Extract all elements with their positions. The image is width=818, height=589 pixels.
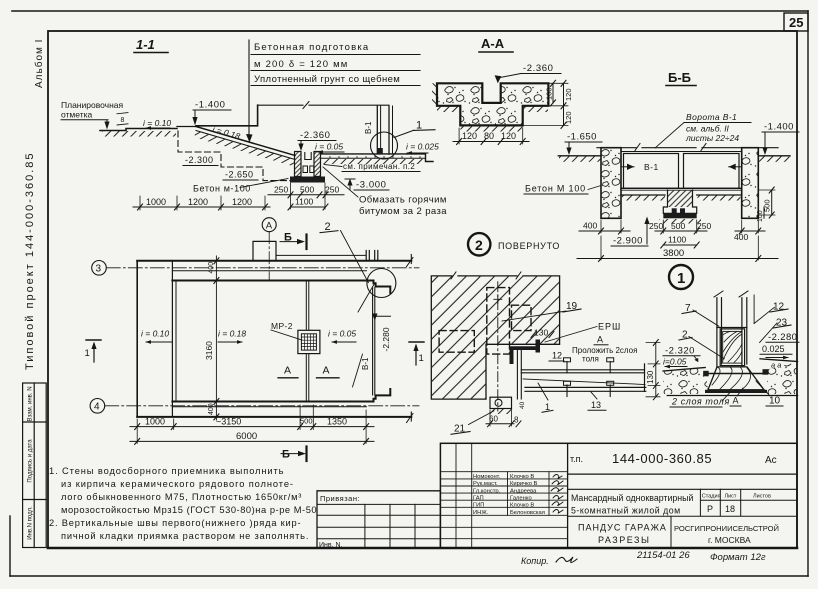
svg-text:Ворота В-1: Ворота В-1 [686, 112, 737, 122]
svg-text:Мансардный одноквартирный: Мансардный одноквартирный [571, 493, 693, 503]
svg-text:60: 60 [489, 415, 498, 424]
svg-text:ИНЖ.: ИНЖ. [473, 510, 489, 516]
svg-text:i = 0.05: i = 0.05 [328, 329, 356, 339]
svg-text:Рук.маст.: Рук.маст. [473, 481, 498, 487]
vertical dim line 3160/400 [215, 256, 217, 420]
svg-text:Гл.констр.: Гл.констр. [473, 488, 501, 494]
svg-text:-2.360: -2.360 [523, 63, 554, 74]
ground line left [558, 155, 601, 157]
svg-text:1350: 1350 [327, 417, 347, 427]
svg-text:120: 120 [564, 111, 573, 124]
svg-text:10: 10 [769, 396, 781, 407]
svg-text:Киричко В: Киричко В [510, 481, 538, 487]
outlet stub on top wall [253, 241, 276, 260]
DET2 [431, 233, 660, 434]
right end of leaf [644, 364, 646, 391]
svg-text:400: 400 [583, 221, 597, 231]
outer border bottom [10, 575, 808, 577]
svg-text:1: 1 [419, 353, 424, 364]
anchor axis dash-dot [497, 282, 499, 411]
svg-text:Галенко: Галенко [510, 495, 532, 501]
channel section concrete body [437, 83, 548, 125]
bolt 2 top [609, 362, 611, 373]
section mark 1 left [86, 339, 101, 341]
bolt 1 top [566, 362, 568, 373]
center pedestal [663, 190, 696, 213]
svg-text:1: 1 [677, 270, 685, 287]
bottom gate jamb [374, 389, 391, 402]
svg-text:Лист: Лист [725, 493, 737, 499]
plan bottom wall [137, 416, 411, 418]
signature columns [456, 443, 549, 548]
svg-text:Стадия: Стадия [702, 493, 721, 499]
leader line from above [753, 295, 755, 324]
svg-text:Р: Р [707, 504, 713, 514]
svg-text:1. Стены водосборного приемн: 1. Стены водосборного приемника выполнит… [49, 466, 284, 476]
svg-text:~3150: ~3150 [216, 417, 241, 427]
stage/sheet header [568, 489, 797, 516]
DET1 [663, 291, 799, 407]
svg-text:Инв.N подл.: Инв.N подл. [28, 506, 34, 540]
svg-text:40: 40 [519, 401, 526, 409]
svg-text:РОСГИПРОНИИСЕЛЬСТРОЙ: РОСГИПРОНИИСЕЛЬСТРОЙ [674, 524, 779, 533]
stamp vertical main divider [567, 443, 569, 548]
right dim 100 [552, 83, 554, 103]
ground concrete right [760, 359, 798, 362]
header row line [568, 488, 797, 490]
svg-text:из кирпича керамического ря: из кирпича керамического рядового полнот… [61, 479, 294, 489]
gate post left pair [717, 298, 722, 367]
svg-text:А-А: А-А [481, 36, 505, 51]
svg-text:8: 8 [121, 117, 125, 124]
svg-text:Бетон М 100: Бетон М 100 [525, 184, 586, 194]
svg-text:3: 3 [96, 264, 102, 275]
svg-text:РАЗРЕЗЫ: РАЗРЕЗЫ [598, 535, 650, 545]
drain grate МР-2 [298, 330, 320, 353]
sill panel top [717, 327, 747, 329]
svg-text:4: 4 [94, 402, 100, 413]
svg-text:130: 130 [646, 370, 655, 384]
grid axis 4 [105, 405, 419, 407]
svg-text:МР-2: МР-2 [271, 321, 293, 331]
plan left edge [136, 261, 138, 417]
ground hatch left [102, 131, 176, 137]
svg-text:250: 250 [274, 185, 288, 195]
svg-text:Клочко В: Клочко В [510, 474, 534, 480]
svg-text:8: 8 [514, 416, 519, 425]
left wall [601, 148, 621, 219]
svg-text:Бетонная подготовка: Бетонная подготовка [254, 42, 369, 53]
gate leaf top plate [521, 370, 644, 373]
svg-text:1000: 1000 [145, 417, 165, 427]
gate post right pair [742, 298, 747, 367]
svg-text:-2.900: -2.900 [613, 236, 643, 247]
svg-text:250: 250 [649, 221, 663, 231]
top row line [568, 473, 797, 475]
svg-text:-2.360: -2.360 [300, 130, 331, 141]
right dim 120 upper [563, 83, 565, 106]
detail callout circle 1 [669, 265, 693, 289]
frame stop flange [536, 340, 541, 353]
pit right wall [314, 152, 321, 177]
outer border top [12, 10, 808, 12]
svg-text:18: 18 [725, 504, 735, 514]
svg-text:1-1: 1-1 [136, 37, 155, 52]
svg-text:0.025: 0.025 [762, 344, 785, 354]
svg-text:400: 400 [208, 262, 215, 274]
svg-text:Привязан:: Привязан: [320, 494, 360, 503]
pedestal base [663, 213, 696, 218]
svg-text:листы 22÷24: листы 22÷24 [685, 133, 739, 143]
signatures squiggles [551, 475, 563, 514]
apron inner edge [171, 261, 173, 417]
svg-text:1100: 1100 [668, 235, 687, 245]
svg-text:толя: толя [582, 355, 599, 364]
svg-text:130: 130 [534, 328, 548, 338]
signature rows [440, 472, 567, 539]
right vertical dim 500 [771, 190, 773, 215]
svg-text:А: А [266, 221, 273, 232]
hinge arrow right [729, 166, 742, 168]
svg-text:Взам. инв. N: Взам. инв. N [28, 386, 34, 421]
svg-text:ПОВЕРНУТО: ПОВЕРНУТО [498, 241, 560, 251]
svg-text:1000: 1000 [146, 197, 166, 207]
svg-text:см. альб. II: см. альб. II [686, 124, 730, 134]
svg-text:Белоновская: Белоновская [510, 510, 545, 516]
svg-text:2. Вертикальные швы первого(: 2. Вертикальные швы первого(нижнего )ряд… [49, 518, 301, 528]
garage floor slab right of pit [321, 154, 434, 162]
svg-text:100: 100 [757, 210, 764, 222]
svg-text:г. МОСКВА: г. МОСКВА [708, 535, 751, 545]
pit bottom slab [290, 177, 325, 183]
ramp sub-layer hatch [194, 131, 295, 166]
post break marks [714, 291, 748, 297]
section mark 1 right [409, 341, 424, 343]
svg-text:i = 0.025: i = 0.025 [406, 142, 439, 152]
svg-text:i = 0.05: i = 0.05 [315, 142, 343, 152]
svg-text:-2.280: -2.280 [768, 332, 797, 343]
svg-text:Типовой проект 144-000-360: Типовой проект 144-000-360.85 [24, 151, 36, 370]
pit left wall [295, 152, 302, 177]
grid circle 3 [92, 261, 107, 276]
svg-text:Б-Б: Б-Б [668, 70, 691, 85]
svg-text:пичной кладки приямка раств: пичной кладки приямка раствором не запол… [61, 531, 309, 541]
svg-text:i = 0.18: i = 0.18 [218, 329, 246, 339]
svg-text:Формат 12г: Формат 12г [710, 552, 766, 563]
gate leaf in plan [373, 288, 375, 395]
svg-text:-3.000: -3.000 [356, 180, 387, 191]
svg-text:Бетон м-100: Бетон м-100 [193, 184, 251, 194]
top edge line with breaks [597, 147, 778, 149]
svg-text:морозостойкостью Мрз15 (ГОСТ: морозостойкостью Мрз15 (ГОСТ 530-80)на р… [61, 505, 317, 515]
svg-text:1100: 1100 [295, 197, 314, 207]
top gate jamb [374, 281, 391, 294]
membrane line with anchors [704, 373, 768, 375]
ramp top bench [177, 126, 196, 128]
svg-text:13: 13 [591, 400, 601, 410]
bolt 2 bottom [609, 385, 611, 397]
svg-text:-1.650: -1.650 [567, 132, 597, 143]
svg-text:отметка: отметка [61, 110, 93, 120]
floor line [621, 187, 742, 189]
svg-text:Уплотненный грунт со щебнем: Уплотненный грунт со щебнем [254, 74, 400, 85]
sill bottom band [705, 390, 767, 393]
organisation cell [670, 516, 672, 548]
pit drain blocks [303, 166, 308, 173]
soil hatch under section [437, 107, 460, 113]
anchor dashed pocket vertical [487, 288, 510, 355]
detail callout circle 1 [371, 132, 398, 159]
svg-text:Планировочная: Планировочная [61, 100, 124, 110]
svg-text:ГИП: ГИП [473, 503, 484, 509]
svg-text:21154-01 26: 21154-01 26 [636, 550, 690, 561]
grid axis А [268, 232, 270, 281]
svg-text:6000: 6000 [236, 431, 257, 442]
bolt 1 bottom [566, 385, 568, 397]
svg-text:3160: 3160 [204, 341, 214, 360]
svg-text:250: 250 [697, 221, 711, 231]
gate frame angle (black) [510, 346, 538, 364]
svg-text:-1.400: -1.400 [195, 100, 226, 111]
svg-text:-2.280: -2.280 [381, 327, 391, 351]
svg-text:120: 120 [564, 88, 573, 101]
svg-text:5-комнатный жилой дом: 5-комнатный жилой дом [571, 506, 681, 516]
outer border left (partial) [9, 516, 11, 576]
svg-text:500: 500 [671, 221, 685, 231]
svg-text:12: 12 [552, 351, 562, 361]
svg-text:1200: 1200 [188, 197, 208, 207]
svg-text:Ас: Ас [765, 455, 777, 466]
svg-text:Инв. N.: Инв. N. [319, 542, 343, 549]
masonry wall block [431, 276, 559, 399]
SEC11 [61, 37, 447, 217]
svg-text:2: 2 [475, 237, 483, 253]
label i=0.18 on slope [211, 124, 241, 142]
svg-text:ПАНДУС ГАРАЖА: ПАНДУС ГАРАЖА [578, 523, 667, 533]
svg-text:1200: 1200 [232, 197, 252, 207]
grid circle 4 [90, 399, 105, 414]
svg-text:120: 120 [462, 131, 477, 141]
leaf diagonal brace [523, 379, 645, 385]
detail title circle 2 [468, 233, 490, 255]
svg-text:Альбом I: Альбом I [33, 39, 45, 88]
hinge arrow left [621, 166, 634, 168]
svg-text:100: 100 [545, 87, 554, 100]
gate panels [624, 154, 679, 189]
right dim 120 lower [563, 106, 565, 126]
right wall [742, 148, 759, 219]
svg-text:см. примечан. п.2: см. примечан. п.2 [343, 162, 415, 171]
svg-text:А: А [733, 396, 739, 406]
concrete sill block [708, 367, 764, 390]
svg-text:В-1: В-1 [361, 357, 370, 370]
svg-text:А: А [284, 365, 291, 377]
svg-text:-2.650: -2.650 [225, 170, 254, 180]
svg-text:А: А [323, 365, 330, 377]
anchor dashed pocket right [512, 305, 532, 330]
ground line left [100, 129, 177, 131]
detail callout circle at jamb [367, 269, 396, 298]
svg-text:Подпись и дата: Подпись и дата [28, 439, 34, 483]
sill panel [720, 329, 744, 366]
svg-text:а а: а а [771, 361, 781, 370]
gate post stubs above wall [366, 251, 378, 261]
NOTES [49, 466, 317, 541]
base line [667, 395, 797, 397]
PLAN [85, 218, 425, 461]
svg-text:Клочко В: Клочко В [510, 503, 534, 509]
drain channel centre line [306, 281, 309, 402]
svg-text:Листов: Листов [753, 493, 771, 499]
svg-text:i=0.05: i=0.05 [663, 357, 687, 367]
privyazan table [317, 491, 440, 548]
svg-text:В-1: В-1 [364, 121, 373, 134]
frame vertical member [517, 350, 521, 399]
svg-text:-1.400: -1.400 [764, 122, 794, 133]
outer border right [807, 11, 809, 576]
leader into B-1 label [358, 284, 374, 312]
svg-text:Андреева: Андреева [510, 488, 537, 494]
excavation dashed steps [178, 131, 291, 181]
svg-text:120: 120 [501, 131, 516, 141]
main stamp outline [440, 443, 797, 548]
svg-text:25: 25 [789, 15, 803, 30]
SECAA [432, 36, 573, 145]
svg-text:А: А [597, 335, 603, 345]
svg-text:400: 400 [208, 403, 215, 415]
svg-text:2 слоя толя: 2 слоя толя [671, 397, 730, 407]
arrow to ground [106, 120, 108, 127]
svg-text:Б: Б [282, 449, 290, 461]
svg-text:400: 400 [734, 232, 748, 242]
pit inner curb [305, 153, 311, 160]
gate post B-1 in section [376, 106, 378, 154]
garage floor level line [258, 104, 389, 106]
left stamp boxes [23, 383, 47, 548]
page number box [784, 13, 808, 31]
svg-text:i = 0.10: i = 0.10 [141, 329, 169, 339]
svg-text:Номоконт.: Номоконт. [473, 474, 501, 480]
svg-text:битумом за 2 раза: битумом за 2 раза [359, 206, 447, 217]
svg-text:т.п.: т.п. [570, 454, 583, 464]
svg-text:лого обыкновенного М75, Плот: лого обыкновенного М75, Плотностью 1650к… [61, 492, 302, 502]
anchor base plate [490, 397, 512, 408]
gate leaves top rail [621, 151, 742, 153]
right vertical dim 100 [763, 207, 765, 218]
ramp slope surface [196, 127, 295, 156]
svg-text:ЕРШ: ЕРШ [598, 322, 621, 332]
grid axis 3 [106, 267, 419, 269]
svg-text:-2.300: -2.300 [185, 155, 214, 165]
plan top wall [137, 260, 411, 262]
svg-text:144-000-360.85: 144-000-360.85 [612, 451, 712, 466]
svg-text:i = 0.10: i = 0.10 [143, 118, 171, 128]
svg-text:ГАП: ГАП [473, 495, 484, 501]
grid circle А [262, 218, 276, 232]
SECBB [524, 70, 799, 289]
svg-text:м 200 δ = 120 мм: м 200 δ = 120 мм [254, 59, 349, 70]
ground line right [758, 155, 790, 157]
floor slab edges [621, 194, 742, 196]
svg-text:3800: 3800 [663, 248, 684, 259]
anchor dashed pocket left [439, 331, 474, 353]
svg-text:-2.320: -2.320 [665, 346, 695, 357]
gate leaf lower plate [525, 387, 646, 391]
svg-text:1: 1 [85, 348, 90, 359]
svg-text:В-1: В-1 [644, 162, 659, 172]
svg-text:Копир.: Копир. [521, 556, 549, 566]
right vertical dim 130 [655, 343, 657, 397]
svg-text:Обмазать горячим: Обмазать горячим [359, 195, 447, 206]
leader from note block down to ramp [248, 40, 250, 136]
ground concrete left [663, 368, 705, 372]
TITLEBLOCK [317, 443, 797, 566]
